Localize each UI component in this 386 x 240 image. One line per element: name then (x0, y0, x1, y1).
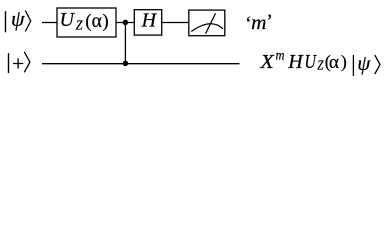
svg-text:α: α (92, 10, 103, 32)
svg-text:H: H (287, 51, 304, 73)
gate box UZ(alpha) (57, 8, 116, 37)
measurement needle (206, 13, 216, 34)
gate label UZ(alpha) (60, 9, 109, 34)
svg-text:+: + (12, 52, 24, 76)
measurement meter arc (191, 24, 223, 32)
svg-text:): ) (102, 11, 108, 32)
svg-text:Z: Z (76, 19, 83, 34)
svg-text:(: ( (85, 11, 91, 32)
measurement box (189, 10, 225, 36)
svg-text:U: U (60, 9, 76, 31)
wire q1 segment from ket to UZ gate (42, 22, 57, 24)
CZ control dot on qubit 2 (123, 61, 128, 67)
ket |+> input label (qubit 2) (9, 52, 30, 76)
svg-text:X: X (259, 51, 274, 73)
CZ vertical wire (124, 23, 126, 64)
svg-text:): ) (341, 52, 347, 73)
wire q2 (42, 63, 240, 65)
wire q1 segment from H gate to measurement (162, 22, 189, 24)
wire q1 segment from UZ gate to H gate (116, 22, 134, 24)
gate box H (134, 10, 161, 35)
output state label X^m H UZ(alpha) |psi> (259, 49, 380, 77)
svg-text:m: m (251, 13, 266, 34)
svg-text:m: m (276, 49, 285, 64)
ket |psi> input label (qubit 1) (6, 7, 31, 32)
classical outcome label 'm' (245, 11, 273, 36)
svg-text:Z: Z (317, 59, 323, 74)
svg-text:ψ: ψ (357, 51, 371, 75)
svg-text:α: α (329, 52, 339, 73)
svg-text:ψ: ψ (11, 7, 25, 31)
svg-text:U: U (304, 51, 317, 73)
svg-text:H: H (141, 9, 158, 31)
svg-text:’: ’ (266, 11, 273, 33)
CZ control dot on qubit 1 (123, 20, 128, 26)
